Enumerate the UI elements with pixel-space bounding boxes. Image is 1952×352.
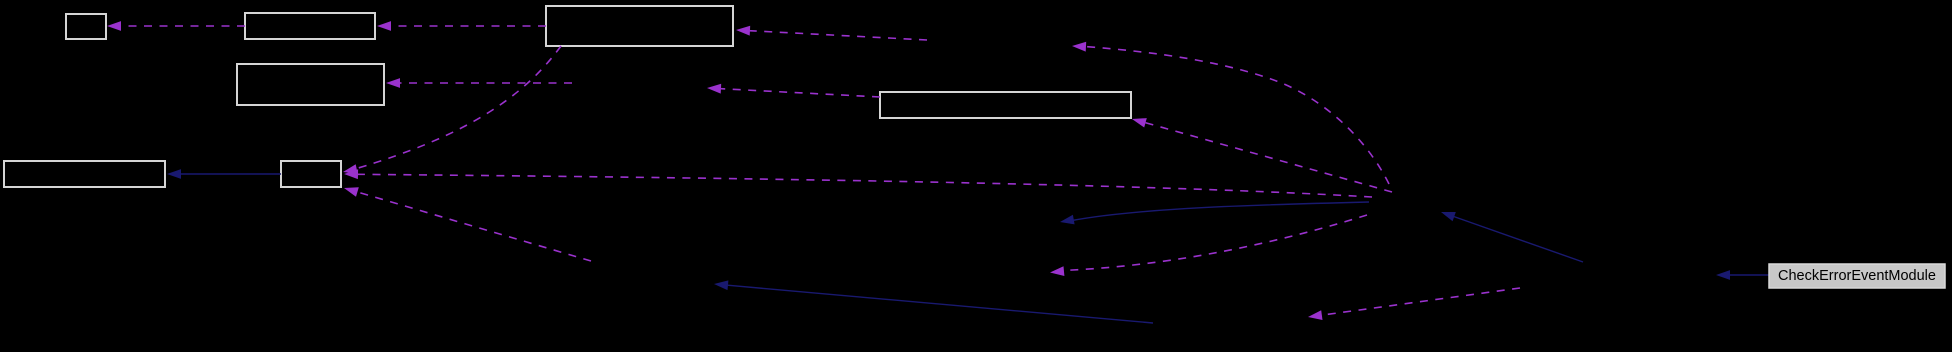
- node B4 (two-line box row2): [237, 64, 384, 105]
- edge BL2 blue solid hub to I2a: [1060, 202, 1369, 224]
- svg-text:CheckErrorEventModule: CheckErrorEventModule: [1778, 268, 1936, 284]
- node B5 (wide box): [880, 92, 1131, 118]
- node B7: [281, 161, 341, 187]
- node B3 (two-line box top): [546, 6, 733, 46]
- edge P2 dashed B2 to B1: [107, 21, 245, 31]
- node B1 (small top-left box): [66, 14, 106, 39]
- edge BL3 blue solid I4 to I3: [714, 280, 1153, 323]
- node B8 CheckErrorEventModule (current node, grey fill): [1769, 264, 1945, 288]
- node B2: [245, 13, 375, 39]
- edge P5 dashed N2 to B3: [736, 26, 927, 40]
- edge P9 dashed curve B3 to B7: [343, 46, 561, 174]
- edge BL4 blue solid X to hub: [1441, 212, 1583, 262]
- edge P6 dashed big arc hub to N2: [1072, 42, 1389, 184]
- edge P11 dashed hub to I2b: [1050, 215, 1367, 276]
- edge P4 dashed B5 to N1: [707, 84, 880, 97]
- edge P8 dashed long horizontal hub to B7: [344, 169, 1372, 197]
- edge BL1 blue solid B7 to B6: [167, 169, 281, 179]
- node B6 (left box): [4, 161, 165, 187]
- edge P7 dashed hub to B5 corner: [1132, 118, 1392, 192]
- edge P12 dashed X to I4: [1308, 288, 1520, 320]
- edge P1 dashed B3 to B2: [377, 21, 546, 31]
- edge P3 dashed N1 to B4: [386, 78, 572, 88]
- edge BL5 blue solid B8 to X: [1716, 270, 1769, 280]
- edge P10 dashed I3 to B7: [344, 187, 591, 261]
